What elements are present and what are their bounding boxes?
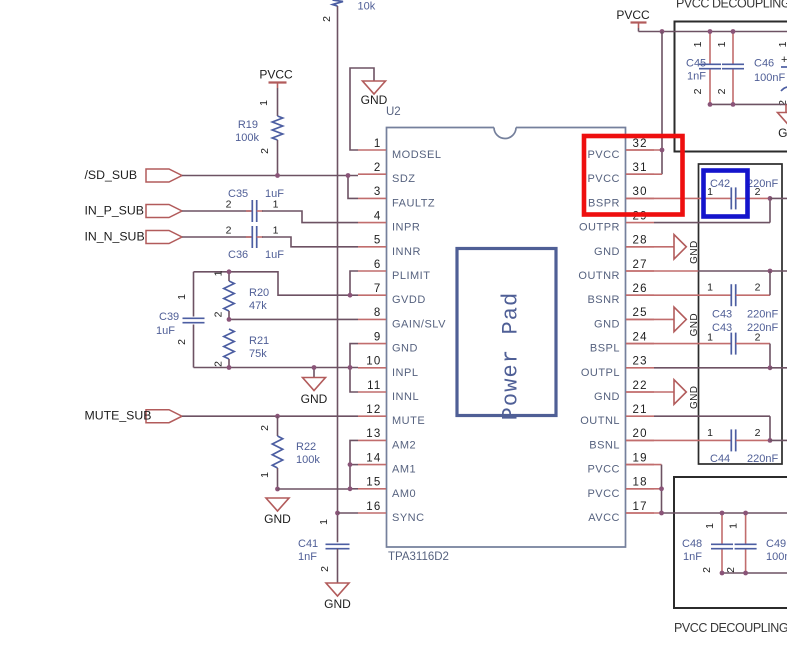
wire R22 top <box>277 416 279 436</box>
resistor R21 <box>224 329 234 359</box>
wire C46 leads <box>732 32 734 105</box>
label C48 1nF <box>682 538 702 563</box>
svg-text:2: 2 <box>176 339 188 345</box>
svg-text:32: 32 <box>633 138 648 150</box>
svg-text:18: 18 <box>633 477 648 489</box>
pin 16 SYNC <box>358 501 425 524</box>
pin label R21-2 <box>213 361 225 367</box>
label C46 100nF <box>754 58 785 85</box>
svg-text:220nF: 220nF <box>747 178 778 190</box>
wire long vertical <box>337 6 339 542</box>
pin label C43b-2 <box>755 332 761 344</box>
pin label C43b-1 <box>707 332 713 344</box>
svg-text:2: 2 <box>213 361 225 367</box>
svg-text:2: 2 <box>755 282 761 294</box>
node junction C44 out <box>768 438 773 443</box>
svg-text:SYNC: SYNC <box>392 512 425 524</box>
svg-text:BSPL: BSPL <box>590 343 620 355</box>
svg-text:OUTPR: OUTPR <box>579 222 620 234</box>
node junction C42 out <box>768 196 773 201</box>
svg-text:OUTNR: OUTNR <box>578 270 620 282</box>
svg-text:U2: U2 <box>386 106 401 118</box>
wire AM0 row <box>278 488 351 490</box>
ground right pin25 <box>674 307 700 336</box>
label C42 220nF <box>747 178 778 190</box>
pin 17 AVCC <box>588 501 654 524</box>
wire GAIN row <box>229 311 358 319</box>
label C35 1uF <box>228 188 284 200</box>
pin label C47-2 <box>777 100 787 106</box>
label C43b 220nF <box>712 322 778 334</box>
svg-text:AVCC: AVCC <box>588 512 620 524</box>
ground right pin22 <box>674 380 700 409</box>
svg-text:2: 2 <box>319 566 331 572</box>
wire pin17 AVCC <box>626 512 787 514</box>
svg-text:BSPR: BSPR <box>588 197 620 209</box>
svg-text:C41: C41 <box>298 538 318 550</box>
svg-text:+: + <box>781 54 787 66</box>
svg-text:GND: GND <box>594 391 620 403</box>
svg-text:2: 2 <box>213 311 225 317</box>
svg-text:25: 25 <box>633 307 648 319</box>
svg-text:C39: C39 <box>159 311 179 323</box>
pin 9 GND <box>358 331 418 354</box>
ground top (pin1) <box>361 81 388 107</box>
pin label C39-2 <box>176 339 188 345</box>
pin label C41-2 <box>319 566 331 572</box>
IC designator U2 <box>386 106 401 118</box>
svg-text:GND: GND <box>264 512 291 526</box>
resistor R20 <box>224 281 234 311</box>
IC part number TPA3116D2 <box>388 551 449 563</box>
svg-text:22: 22 <box>633 380 648 392</box>
pin label C44-2 <box>755 427 761 439</box>
svg-text:30: 30 <box>633 186 648 198</box>
svg-text:17: 17 <box>633 501 648 513</box>
pin 19 PVCC <box>587 452 654 475</box>
svg-text:9: 9 <box>374 331 382 343</box>
ground C41 <box>324 583 351 611</box>
resistor 10k top <box>333 0 344 6</box>
svg-text:GND: GND <box>689 313 700 336</box>
wire C43b to OUTPL <box>654 344 770 368</box>
node junction OUTPL <box>768 365 773 370</box>
wire C41 bottom <box>337 549 339 583</box>
wire C44 to OUTNL <box>736 439 770 441</box>
wire OUTNL <box>654 416 770 440</box>
capacitor C46 <box>722 64 744 68</box>
svg-text:1: 1 <box>716 41 728 47</box>
svg-text:GVDD: GVDD <box>392 294 426 306</box>
svg-text:100k: 100k <box>296 454 320 466</box>
svg-text:2: 2 <box>226 225 232 237</box>
pin 29 OUTPR <box>579 210 654 233</box>
svg-text:1: 1 <box>707 282 713 294</box>
pin 1 MODSEL <box>358 138 441 161</box>
node junction C48 top <box>720 511 725 516</box>
pin label C49-1 <box>728 523 740 529</box>
wire SDZ branch to FAULTZ <box>348 176 358 199</box>
svg-text:14: 14 <box>366 452 381 464</box>
port MUTE_SUB <box>85 409 183 423</box>
pin 31 PVCC <box>587 162 654 185</box>
svg-text:11: 11 <box>367 380 381 392</box>
svg-text:GND: GND <box>361 93 388 107</box>
wire C43a to OUTNR <box>736 271 770 295</box>
svg-text:FAULTZ: FAULTZ <box>392 197 435 209</box>
wire BSPR to C42 <box>626 197 731 199</box>
node junction C45 bottom <box>708 102 713 107</box>
capacitor C42 <box>731 187 735 209</box>
svg-text:GND: GND <box>689 386 700 409</box>
svg-text:8: 8 <box>374 307 382 319</box>
svg-text:100nF: 100nF <box>754 72 785 84</box>
svg-text:3: 3 <box>374 186 382 198</box>
svg-text:20: 20 <box>633 428 648 440</box>
node junction PVCC drop <box>660 29 665 34</box>
node junction R19-/SD <box>275 173 280 178</box>
label C43a 220nF <box>712 309 778 321</box>
svg-text:47k: 47k <box>249 300 267 312</box>
wire PLIMIT branch <box>350 271 358 295</box>
svg-text:2: 2 <box>716 88 728 94</box>
wire BSNR to C43 <box>626 294 731 296</box>
label C41 1nF <box>298 538 318 563</box>
svg-text:1: 1 <box>258 100 270 106</box>
pin label C43a-2 <box>755 282 761 294</box>
node junction pin18 <box>659 486 664 491</box>
wire OUTPL to edge <box>770 367 787 369</box>
node junction R21 bottom <box>227 365 232 370</box>
svg-text:OUTNL: OUTNL <box>580 415 620 427</box>
node junction R20-R21 <box>227 317 232 322</box>
svg-text:R21: R21 <box>249 335 269 347</box>
svg-text:GND: GND <box>594 246 620 258</box>
pin 7 GVDD <box>358 283 426 306</box>
wire GVDD net <box>194 272 359 295</box>
label C42 <box>710 178 730 190</box>
svg-text:OUTPL: OUTPL <box>581 367 620 379</box>
node junction GND mid <box>312 365 317 370</box>
node junction R20 top <box>227 269 232 274</box>
pin 32 PVCC <box>587 138 654 161</box>
wire OUTNL to edge <box>770 439 787 441</box>
wire BSPL to C43b <box>626 343 731 345</box>
PVCC decoupling box bottom-right <box>674 477 787 608</box>
wire GND stub top box <box>785 104 787 112</box>
pin 30 BSPR <box>588 186 654 209</box>
svg-text:MODSEL: MODSEL <box>392 149 441 161</box>
node junction R22 top <box>275 414 280 419</box>
pin label C49-2 <box>725 567 737 573</box>
pin label R20-2 <box>213 311 225 317</box>
label R19 100k <box>235 119 259 144</box>
node junction SYNC <box>335 511 340 516</box>
svg-text:GND: GND <box>778 126 787 140</box>
node junction bracket <box>348 365 353 370</box>
wire pins 9-11 bracket <box>350 344 358 392</box>
resistor R19 <box>272 116 282 140</box>
pin 28 GND <box>594 235 654 258</box>
wire R22 bottom <box>277 468 279 489</box>
svg-text:PLIMIT: PLIMIT <box>392 270 430 282</box>
svg-text:1: 1 <box>273 225 279 237</box>
svg-text:1: 1 <box>728 523 740 529</box>
svg-text:1nF: 1nF <box>298 551 317 563</box>
pin label C39-1 <box>176 294 188 300</box>
wire PVCC rail top <box>639 28 787 32</box>
pin label C46-1 <box>716 41 728 47</box>
pin 24 BSPL <box>590 331 654 354</box>
svg-text:AM1: AM1 <box>392 464 416 476</box>
wire pin22 gnd <box>626 391 674 393</box>
label C45 1nF <box>686 58 706 83</box>
svg-text:31: 31 <box>633 162 648 174</box>
pin 21 OUTNL <box>580 404 654 427</box>
svg-text:2: 2 <box>226 199 232 211</box>
wire C35 to INPR <box>257 211 358 223</box>
power PVCC left <box>259 68 293 89</box>
svg-text:C48: C48 <box>682 538 702 550</box>
node junction pin32 <box>660 148 665 153</box>
wire pin28 gnd <box>626 246 674 248</box>
svg-text:2: 2 <box>755 332 761 344</box>
svg-text:1: 1 <box>707 332 713 344</box>
svg-text:INNR: INNR <box>392 246 421 258</box>
svg-text:PVCC: PVCC <box>587 173 620 185</box>
label C49 100nF <box>766 538 787 563</box>
pin label C36-1 <box>273 225 279 237</box>
PVCC decoupling box top-right <box>675 22 787 152</box>
power PVCC top <box>616 8 650 28</box>
pin 11 INNL <box>358 380 419 403</box>
node junction pin6-7 <box>348 293 353 298</box>
IC U2 TPA3116D2 body <box>387 128 626 548</box>
svg-text:100k: 100k <box>235 132 259 144</box>
svg-text:2: 2 <box>259 148 271 154</box>
svg-text:21: 21 <box>633 404 648 416</box>
highlight blue box C42 <box>704 171 748 217</box>
port IN_P_SUB <box>85 203 183 217</box>
resistor R22 <box>272 436 282 468</box>
pin label R19-1 <box>258 100 270 106</box>
capacitor C49 <box>735 544 757 548</box>
wire decoupling bottom rail top <box>710 103 787 105</box>
highlight red box pins 30-32 <box>584 136 683 215</box>
pin label C42-2 <box>755 186 761 198</box>
wire BSNL to C44 <box>626 439 731 441</box>
svg-text:GND: GND <box>594 318 620 330</box>
svg-text:C44: C44 <box>710 453 730 465</box>
svg-text:1: 1 <box>374 138 382 150</box>
node junction AM0 <box>348 486 353 491</box>
svg-text:19: 19 <box>633 452 648 464</box>
svg-text:BSNL: BSNL <box>589 439 620 451</box>
wire PVCC to R19 <box>277 88 279 116</box>
pin 27 OUTNR <box>578 259 654 282</box>
wire MUTE_SUB to MUTE <box>182 415 358 417</box>
wire IN_N to C36 <box>182 236 252 238</box>
pin 2 SDZ <box>358 162 416 185</box>
svg-text:IN_N_SUB: IN_N_SUB <box>85 229 145 243</box>
svg-text:1: 1 <box>259 472 271 478</box>
svg-text:C43: C43 <box>712 309 732 321</box>
pin 6 PLIMIT <box>358 259 430 282</box>
pin label C45-2 <box>692 88 704 94</box>
capacitor C43a <box>731 284 735 306</box>
svg-text:75k: 75k <box>249 348 267 360</box>
wire C45 leads <box>709 32 711 105</box>
wire pin19 rail <box>626 465 662 513</box>
svg-text:23: 23 <box>633 356 648 368</box>
pin 8 GAIN/SLV <box>358 307 446 330</box>
svg-text:4: 4 <box>374 210 382 222</box>
svg-text:PVCC DECOUPLING: PVCC DECOUPLING <box>674 621 787 635</box>
svg-text:PVCC: PVCC <box>587 488 620 500</box>
svg-text:2: 2 <box>374 162 382 174</box>
svg-text:5: 5 <box>374 235 382 247</box>
svg-text:1: 1 <box>707 186 713 198</box>
svg-text:220nF: 220nF <box>747 453 778 465</box>
svg-text:/SD_SUB: /SD_SUB <box>85 168 138 182</box>
svg-text:AM0: AM0 <box>392 488 416 500</box>
svg-text:R22: R22 <box>296 441 316 453</box>
pin label C43a-1 <box>707 282 713 294</box>
svg-text:R20: R20 <box>249 287 269 299</box>
pin label C48-1 <box>704 523 716 529</box>
svg-text:12: 12 <box>366 404 381 416</box>
svg-text:24: 24 <box>633 331 648 343</box>
svg-text:MUTE_SUB: MUTE_SUB <box>85 409 152 423</box>
svg-text:27: 27 <box>633 259 648 271</box>
label C36 1uF <box>228 249 284 261</box>
wire IN_P to C35 <box>182 210 252 212</box>
pin 14 AM1 <box>358 452 416 475</box>
ground R22 <box>264 498 291 526</box>
node junction C46 top <box>731 29 736 34</box>
svg-text:2: 2 <box>259 425 271 431</box>
svg-text:C49: C49 <box>766 538 786 550</box>
pin label R22-2 <box>259 425 271 431</box>
svg-text:C42: C42 <box>710 178 730 190</box>
svg-text:INPL: INPL <box>392 367 418 379</box>
wire PVCC drop to pins 31-32 <box>626 32 662 175</box>
capacitor C45 <box>699 64 721 68</box>
label R20 47k <box>249 287 269 312</box>
svg-text:PVCC: PVCC <box>587 149 620 161</box>
svg-text:IN_P_SUB: IN_P_SUB <box>85 203 144 217</box>
svg-text:13: 13 <box>366 428 381 440</box>
svg-text:28: 28 <box>633 235 648 247</box>
node junction AM1 <box>348 462 353 467</box>
svg-text:C46: C46 <box>754 58 774 70</box>
svg-text:10k: 10k <box>358 1 376 13</box>
port /SD_SUB <box>85 168 183 182</box>
node junction R22 bottom <box>275 487 280 492</box>
wire pin25 gnd <box>626 318 674 320</box>
wire C42 to OUTPR <box>654 198 770 222</box>
svg-text:2: 2 <box>755 427 761 439</box>
label C44 220nF <box>710 453 778 465</box>
node junction C46 bottom <box>731 102 736 107</box>
svg-text:INPR: INPR <box>392 222 420 234</box>
svg-text:2: 2 <box>321 16 333 22</box>
wire OUTPR to edge <box>770 197 787 199</box>
svg-text:PVCC DECOUPLING: PVCC DECOUPLING <box>676 0 787 11</box>
label 10k <box>358 1 376 13</box>
svg-text:1: 1 <box>704 523 716 529</box>
pin label C45-1 <box>692 41 704 47</box>
svg-text:26: 26 <box>633 283 648 295</box>
svg-text:GAIN/SLV: GAIN/SLV <box>392 318 446 330</box>
pin 23 OUTPL <box>581 356 654 379</box>
wire R19 to /SD_SUB <box>277 140 279 176</box>
node junction C49 bottom <box>743 571 748 576</box>
svg-text:7: 7 <box>374 283 382 295</box>
svg-text:1: 1 <box>707 427 713 439</box>
capacitor C35 <box>252 200 256 222</box>
svg-text:R19: R19 <box>238 119 258 131</box>
wire OUTNR <box>626 270 787 272</box>
svg-text:1uF: 1uF <box>156 325 175 337</box>
pin 3 FAULTZ <box>358 186 435 209</box>
pin 13 AM2 <box>358 428 416 451</box>
ground right pin28 <box>674 235 700 264</box>
svg-text:16: 16 <box>366 501 381 513</box>
svg-text:MUTE: MUTE <box>392 415 425 427</box>
svg-text:2: 2 <box>725 567 737 573</box>
wire R21 bottom <box>228 359 230 368</box>
pin 4 INPR <box>358 210 420 233</box>
svg-text:SDZ: SDZ <box>392 173 416 185</box>
svg-text:GND: GND <box>324 597 351 611</box>
node junction pin17 <box>659 511 664 516</box>
pin label C46-2 <box>716 88 728 94</box>
svg-text:GND: GND <box>392 343 418 355</box>
svg-text:TPA3116D2: TPA3116D2 <box>388 551 449 563</box>
wire C36 to INNR <box>257 237 358 247</box>
power pad <box>457 249 556 421</box>
ground top box partial <box>778 113 787 141</box>
pin 18 PVCC <box>587 477 654 500</box>
node junction C49 top <box>743 511 748 516</box>
port IN_N_SUB <box>85 229 183 243</box>
ground mid-left <box>301 378 328 407</box>
wire C48 leads <box>721 513 723 573</box>
pin label C44-1 <box>707 427 713 439</box>
capacitor C39 <box>183 318 205 322</box>
bootstrap capacitor box C42-C44 <box>699 164 783 464</box>
svg-text:GND: GND <box>689 240 700 263</box>
svg-text:2: 2 <box>692 88 704 94</box>
wire bottom net <box>194 325 359 368</box>
svg-text:PVCC: PVCC <box>616 8 650 22</box>
svg-text:PVCC: PVCC <box>259 68 293 82</box>
wire R20 top stub <box>228 272 230 281</box>
svg-text:C36: C36 <box>228 249 248 261</box>
capacitor C47 partial <box>781 54 787 91</box>
label R21 75k <box>249 335 269 360</box>
svg-text:220nF: 220nF <box>747 322 778 334</box>
svg-text:PVCC: PVCC <box>587 464 620 476</box>
wire decoupling bottom rail <box>722 572 787 574</box>
svg-text:GND: GND <box>301 392 328 406</box>
pin label R20-1 <box>213 270 225 276</box>
capacitor C36 <box>252 226 256 248</box>
pin label C42-1 <box>707 186 713 198</box>
pin label 10k-2 <box>321 16 333 22</box>
wire MODSEL to GND <box>350 68 374 150</box>
